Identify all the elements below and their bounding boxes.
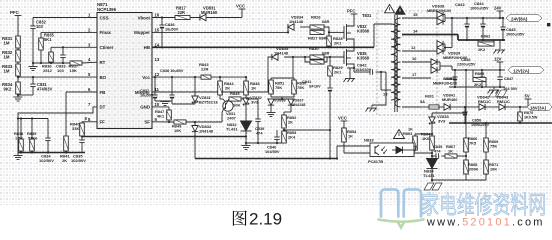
svg-text:200K: 200K [469, 167, 478, 172]
svg-text:CSS: CSS [100, 15, 109, 20]
resistor R831 1M [16, 36, 21, 48]
wire to primary bottom [380, 72, 382, 90]
wire ground rail y63 [33, 62, 70, 64]
svg-text:FF: FF [100, 120, 106, 125]
svg-text:K3568: K3568 [357, 56, 370, 61]
resistor R864 1K0 [431, 134, 433, 136]
opto pins right [414, 145, 416, 147]
heavy secondary ground rail [402, 34, 458, 36]
svg-text:3V3: 3V3 [438, 119, 446, 124]
svg-text:R845: R845 [230, 91, 240, 96]
svg-text:K3568: K3568 [357, 29, 370, 34]
svg-text:13: 13 [155, 57, 160, 62]
svg-text:1K: 1K [408, 127, 413, 132]
svg-text:11: 11 [155, 87, 160, 92]
wire pin14 HB heavy rail [152, 46, 374, 48]
capacitor C832 103 on CSS [32, 18, 34, 27]
svg-text:1N4148: 1N4148 [199, 129, 214, 134]
diode VD839 pair MBRF20H100 [436, 44, 438, 51]
wire shield branch [372, 72, 386, 105]
svg-text:Mupper: Mupper [134, 30, 150, 35]
svg-text:2K: 2K [225, 86, 230, 91]
wire cap ground bus [155, 100, 172, 102]
svg-text:474/63V: 474/63V [37, 87, 53, 92]
resistor R843 22R on Vcc rail [201, 75, 211, 79]
op-amp U1: controller IC N871 NCP1396 body [97, 13, 152, 129]
opto pins left [337, 145, 370, 147]
zener VZ831 BZT52C18 [194, 77, 196, 96]
resistor R867 1K [441, 155, 445, 157]
wire pin8 FF [82, 121, 97, 123]
resistor R841 2K [64, 136, 69, 151]
svg-text:14: 14 [155, 42, 160, 47]
svg-text:104/50V: 104/50V [265, 149, 280, 154]
resistor R866 7K5 [465, 113, 467, 138]
ground under 24V rail [499, 40, 501, 49]
resistor R826 68R [310, 25, 324, 29]
wire [17, 94, 19, 97]
resistor R852 2K [282, 115, 287, 128]
shunt regulator N832 TL431 [241, 121, 252, 131]
resistor R848 1K [245, 77, 247, 81]
svg-text:R830: R830 [309, 46, 319, 51]
caption figure label 图2.19 [233, 211, 247, 226]
ground at x33 [32, 63, 34, 66]
ground under V835 [345, 78, 355, 80]
diode VD843 RM11C [499, 104, 505, 110]
svg-text:17: 17 [412, 72, 417, 77]
svg-text:Vcc: Vcc [142, 75, 150, 80]
svg-text:474: 474 [256, 131, 263, 136]
svg-text:15K: 15K [70, 68, 77, 73]
resistor R832 1M [16, 50, 21, 62]
diode VD835 1N4148 [272, 54, 278, 60]
chassis ground under N834 [431, 180, 433, 182]
zener VZ832 3V3 [245, 95, 247, 98]
stray mark square [547, 23, 550, 26]
wire diode feed [271, 98, 291, 100]
svg-text:1K: 1K [448, 148, 453, 153]
wire mlower riser [268, 57, 276, 92]
ground symbol bottom left [17, 153, 19, 156]
capacitor C839 474 [257, 99, 259, 119]
svg-text:VD838: VD838 [432, 4, 445, 9]
svg-text:MUR460: MUR460 [442, 97, 457, 102]
fuse F831 5A [421, 106, 429, 108]
resistor R849 10K on SF line [174, 120, 186, 124]
transistor V832 K3568 high-side MOSFET [343, 26, 345, 39]
transformer T831 primary winding [391, 24, 397, 100]
svg-text:MBRF20H100: MBRF20H100 [433, 81, 457, 85]
resistor R817 22R [175, 15, 190, 19]
ground under VCC caps [161, 101, 170, 103]
ground under R834 [14, 96, 23, 98]
svg-text:1000u/35V: 1000u/35V [506, 33, 525, 37]
warning triangle outline at transformer top [385, 5, 395, 13]
svg-text:1K: 1K [251, 86, 256, 91]
chassis marks [489, 90, 499, 97]
svg-text:Ctimer: Ctimer [100, 45, 114, 50]
node VCC tee mid [341, 120, 348, 122]
node 5V tee [525, 98, 532, 100]
svg-text:C836: C836 [165, 22, 175, 27]
svg-text:Vboot: Vboot [138, 15, 151, 20]
svg-text:MUR160: MUR160 [201, 10, 218, 15]
wire ground rail jog [457, 35, 459, 41]
svg-text:1K: 1K [348, 134, 353, 139]
svg-text:1.5K: 1.5K [15, 136, 23, 141]
svg-text:104 50V: 104 50V [503, 86, 518, 91]
transistor V835 K3568 low-side MOSFET [343, 51, 345, 64]
svg-text:1N4148: 1N4148 [274, 50, 289, 55]
svg-text:103/630V: 103/630V [355, 68, 372, 72]
svg-text:1M: 1M [4, 69, 10, 74]
svg-text:NCP1396: NCP1396 [97, 7, 117, 12]
svg-text:2K4: 2K4 [288, 135, 296, 140]
node PFC input tee [15, 15, 22, 17]
svg-text:MBRF20H100: MBRF20H100 [427, 9, 451, 13]
svg-text:33K: 33K [72, 126, 79, 131]
diode VD837 1N4148 [288, 99, 294, 105]
svg-text:SF16V: SF16V [309, 85, 321, 89]
watermark book ribbon [379, 220, 424, 228]
resistor R827 68R [310, 30, 324, 34]
resistor R839 51K6 [31, 119, 33, 140]
wire zener to dividers [415, 133, 432, 135]
output arrow 24V 8A [506, 15, 542, 22]
svg-text:TL431: TL431 [423, 173, 435, 178]
capacitor C833 103 [62, 47, 64, 55]
svg-text:PFC: PFC [10, 10, 20, 15]
svg-text:F831: F831 [425, 94, 435, 99]
svg-text:15: 15 [413, 12, 418, 17]
svg-text:BO: BO [100, 75, 107, 80]
diode VD838 pair MBRF20H100 [436, 15, 438, 22]
capacitor C843 1000u/35V [466, 18, 468, 24]
capacitor C848 1000u/25V [454, 70, 456, 77]
svg-text:12V: 12V [494, 56, 502, 61]
svg-text:5V: 5V [525, 93, 530, 98]
resistor R851 75K [270, 78, 272, 80]
wire pin11 Mlower [152, 91, 268, 93]
secondary taps upper [402, 17, 437, 19]
svg-text:10: 10 [155, 102, 160, 107]
svg-text:C838 10u50V: C838 10u50V [160, 69, 184, 73]
node 12V tee [497, 61, 504, 63]
resistor R865 2K2 bleeder [472, 70, 474, 80]
wire 24V rail [452, 17, 504, 19]
svg-text:10u50V: 10u50V [165, 28, 179, 32]
svg-text:1K0.5W: 1K0.5W [524, 116, 538, 120]
heavy bottom-right ground rail [449, 122, 552, 124]
ground under 12V return [493, 87, 495, 89]
svg-text:22R: 22R [178, 10, 186, 15]
svg-text:103: 103 [36, 24, 44, 29]
wire pin7 DT dogleg [18, 107, 97, 153]
wire R868 to anode [432, 179, 486, 181]
resistor R828 2K1 gate pulldown [328, 32, 330, 36]
wire PFC divider chain [17, 16, 19, 37]
wire resonant branch [353, 68, 355, 72]
svg-text:R865: R865 [475, 71, 485, 76]
svg-text:VD836: VD836 [274, 99, 286, 103]
svg-text:RM11C: RM11C [497, 99, 510, 104]
resistor R829 2K1 lower gate pulldown [329, 57, 331, 66]
wire mid tap [283, 128, 285, 131]
svg-text:SF: SF [144, 120, 150, 125]
diode VD836 1N4148 [268, 99, 274, 105]
capacitor C850 filter [464, 107, 466, 112]
capacitor C849 474 compensation [432, 155, 436, 157]
svg-text:5A: 5A [420, 99, 425, 104]
wire pin12 Vcc rail [152, 76, 246, 78]
svg-text:1N4148: 1N4148 [289, 19, 304, 24]
svg-text:1N4148: 1N4148 [292, 103, 305, 107]
wire TL431 anode bus y143 [246, 142, 284, 144]
svg-text:103: 103 [57, 68, 64, 73]
resistor R830 68R upper [310, 55, 324, 59]
resistor R833 1M [16, 64, 21, 76]
svg-text:VD839: VD839 [448, 51, 461, 56]
resistor R830b 68R lower [305, 57, 310, 62]
svg-text:102/50V: 102/50V [39, 158, 54, 163]
svg-text:C841: C841 [302, 79, 312, 84]
svg-text:VZ831: VZ831 [199, 95, 212, 100]
svg-text:75K: 75K [490, 144, 497, 149]
svg-text:51K6: 51K6 [28, 136, 38, 141]
svg-text:12V(2A): 12V(2A) [513, 68, 530, 73]
diode VD831 MUR160 [200, 14, 206, 20]
wire BO node [17, 76, 19, 82]
capacitor C841 on divider drop [329, 76, 331, 88]
capacitor C837 10u/50V [154, 77, 156, 95]
svg-text:www.520101.com: www.520101.com [426, 217, 545, 229]
warning triangle near opto [394, 130, 405, 139]
resistor R837 15K on RT [70, 61, 82, 65]
wire gate node lower mosfet [324, 56, 344, 58]
svg-text:2512: 2512 [43, 68, 53, 73]
svg-text:C843: C843 [455, 2, 465, 7]
svg-text:C847: C847 [504, 76, 513, 81]
svg-text:2K1: 2K1 [334, 70, 342, 75]
svg-text:C837: C837 [140, 89, 149, 93]
svg-text:GND: GND [140, 105, 150, 110]
svg-text:C844: C844 [474, 1, 484, 6]
wire fault bus y136.5 heavy [82, 136, 246, 138]
svg-text:1000u/35V: 1000u/35V [470, 7, 489, 11]
svg-text:24V: 24V [494, 5, 502, 10]
warning triangle filled at transformer top [395, 6, 405, 14]
optocoupler N833 PC817B body [370, 143, 414, 157]
wire bottom join [270, 94, 272, 97]
wire fault bus drop to feedback rail [194, 137, 196, 159]
svg-text:FB: FB [100, 90, 106, 95]
svg-text:10K: 10K [233, 103, 240, 108]
svg-text:R870: R870 [524, 110, 533, 115]
wire pin15 Mupper [152, 31, 288, 33]
wire led anode jumper [413, 146, 415, 150]
diode VD832 1N4148 [194, 122, 196, 126]
wire 24V cathode bus [451, 18, 453, 48]
wire 12V rail [451, 66, 453, 70]
svg-text:T831: T831 [362, 13, 372, 18]
svg-text:4K1: 4K1 [157, 114, 165, 119]
svg-text:1M: 1M [4, 55, 10, 60]
svg-text:12: 12 [411, 45, 416, 50]
transistor V831 2407 [223, 101, 233, 111]
svg-text:N833: N833 [364, 138, 374, 143]
svg-text:75K: 75K [297, 85, 304, 90]
resistor R838 1K5 [20, 119, 22, 140]
resistor R869 75K [485, 123, 487, 138]
resistor R863 1K [414, 134, 416, 136]
wire gate node upper mosfet [329, 31, 344, 33]
wire pin6 FB down [66, 91, 97, 93]
capacitor C844 1000u/35V [482, 18, 484, 24]
zener VZ833 3V3 [432, 112, 466, 114]
svg-text:DT: DT [100, 105, 106, 110]
svg-text:24V(8A): 24V(8A) [511, 16, 528, 21]
svg-text:15: 15 [155, 27, 160, 32]
svg-text:2.19: 2.19 [249, 210, 282, 229]
resistor R871 10K [485, 152, 487, 160]
wire [17, 62, 19, 64]
svg-text:R826: R826 [311, 15, 321, 20]
svg-text:HB: HB [144, 45, 150, 50]
svg-text:2K1: 2K1 [334, 41, 342, 46]
svg-text:R863: R863 [403, 131, 413, 136]
ground under N832 [245, 143, 247, 145]
svg-text:10K: 10K [490, 167, 497, 172]
svg-text:68R: 68R [322, 19, 329, 24]
svg-text:68R: 68R [322, 50, 329, 55]
svg-text:75K: 75K [275, 85, 282, 90]
diode VD834 1N4148 [288, 24, 294, 30]
resistor R862 2K2 bleeder [477, 40, 479, 44]
wire [17, 48, 19, 50]
svg-text:102/50V: 102/50V [71, 158, 86, 163]
wire 5V bus [465, 106, 479, 108]
svg-text:16: 16 [412, 56, 417, 61]
wire pin9 SF line [152, 121, 174, 123]
diode VD842 RM11C [479, 104, 485, 110]
svg-text:VCC: VCC [236, 3, 245, 8]
wire 12V sense drop [465, 70, 467, 87]
wire pin5 BO to IC [18, 76, 97, 78]
resistor R847 4K1 [167, 110, 172, 120]
svg-text:TL431: TL431 [226, 127, 238, 132]
capacitor C835 102/50V [79, 139, 84, 141]
svg-text:C845: C845 [506, 27, 516, 32]
node 24V tee [497, 10, 504, 12]
resistor R853 2K4 [282, 131, 287, 143]
svg-text:VCC: VCC [338, 115, 347, 120]
wire upper gate branch [288, 27, 293, 32]
svg-text:2K2: 2K2 [474, 82, 482, 87]
wire header line y118.5 [18, 118, 48, 120]
svg-text:PFC: PFC [347, 8, 355, 13]
svg-text:1K0: 1K0 [422, 136, 429, 141]
resistor R834 9K2 [16, 82, 21, 94]
capacitor C838 10u/50V [171, 77, 173, 95]
capacitor C847 104/50V [499, 70, 501, 77]
wire 12V return rail [449, 86, 505, 88]
capacitor C842 103/630V resonant [369, 69, 371, 74]
ground under VD836 [267, 112, 276, 114]
svg-text:10u50V: 10u50V [140, 94, 154, 98]
wire divider header [271, 77, 294, 79]
capacitor C846 2200u/25V [481, 70, 483, 77]
wire opto emitter to rail [336, 146, 338, 159]
svg-text:9K2: 9K2 [4, 87, 12, 92]
wire pin3 Ctimer [51, 46, 97, 48]
wire source node to ground [347, 67, 354, 69]
resistor R854 1K [342, 128, 347, 142]
svg-text:PC817B: PC817B [368, 159, 383, 164]
transformer secondary upper winding [395, 18, 401, 51]
svg-text:1M: 1M [4, 41, 10, 46]
svg-text:Fmax: Fmax [100, 30, 112, 35]
output arrow 12V 2A [508, 67, 544, 74]
svg-text:C850: C850 [472, 119, 481, 123]
svg-text:C842: C842 [357, 63, 367, 68]
svg-text:RT: RT [100, 60, 106, 65]
resistor R840 33K [81, 122, 83, 123]
svg-text:14: 14 [413, 29, 418, 34]
capacitor C845 1000u/35V [502, 18, 504, 27]
resistor R836 2512 [50, 47, 52, 52]
ground rail bottom left [18, 152, 85, 154]
svg-text:3V3: 3V3 [251, 100, 259, 105]
transformer T831 shield dashed box [377, 11, 437, 115]
wire divider drop to feedback rail [329, 130, 331, 159]
capacitor C840 104/50V [276, 130, 278, 137]
svg-text:16: 16 [155, 13, 160, 18]
watermark book icon [381, 190, 421, 217]
node VCC tee top [239, 8, 246, 10]
transformer core [394, 15, 396, 112]
wire feedback rail y158.5 heavy [195, 158, 337, 160]
optocoupler LED [396, 147, 403, 154]
svg-text:5K1: 5K1 [44, 37, 52, 42]
svg-text:2K: 2K [62, 158, 67, 163]
svg-text:R827: R827 [308, 36, 318, 41]
capacitor C836 bootstrap 10u/50V [161, 18, 163, 26]
wire sense mid node [465, 152, 467, 160]
secondary taps lower [402, 61, 431, 63]
output arrow 1.8V 3A [527, 104, 552, 111]
svg-text:474: 474 [434, 148, 441, 153]
wire HB to transformer primary top [373, 24, 375, 47]
ground shield [367, 107, 377, 109]
resistor R868 200K [464, 160, 469, 174]
svg-text:2407: 2407 [227, 116, 237, 121]
svg-text:68R: 68R [319, 36, 326, 41]
shunt regulator N834 TL431 [427, 159, 438, 169]
svg-text:C846: C846 [461, 57, 471, 62]
svg-text:BZT52C18: BZT52C18 [199, 101, 218, 105]
optocoupler phototransistor [374, 146, 376, 154]
resistor R870 1K/0.5W [519, 107, 521, 112]
svg-text:2K2: 2K2 [478, 47, 486, 52]
svg-text:RM11C: RM11C [478, 99, 491, 104]
svg-text:7K5: 7K5 [469, 141, 477, 146]
resistor R850 75K [293, 78, 295, 80]
svg-text:VD837: VD837 [292, 99, 304, 103]
node PFC tee at V832 drain [351, 13, 358, 15]
diode VD840 pair MBRF20H100 [430, 62, 432, 70]
svg-text:10K: 10K [174, 128, 181, 133]
